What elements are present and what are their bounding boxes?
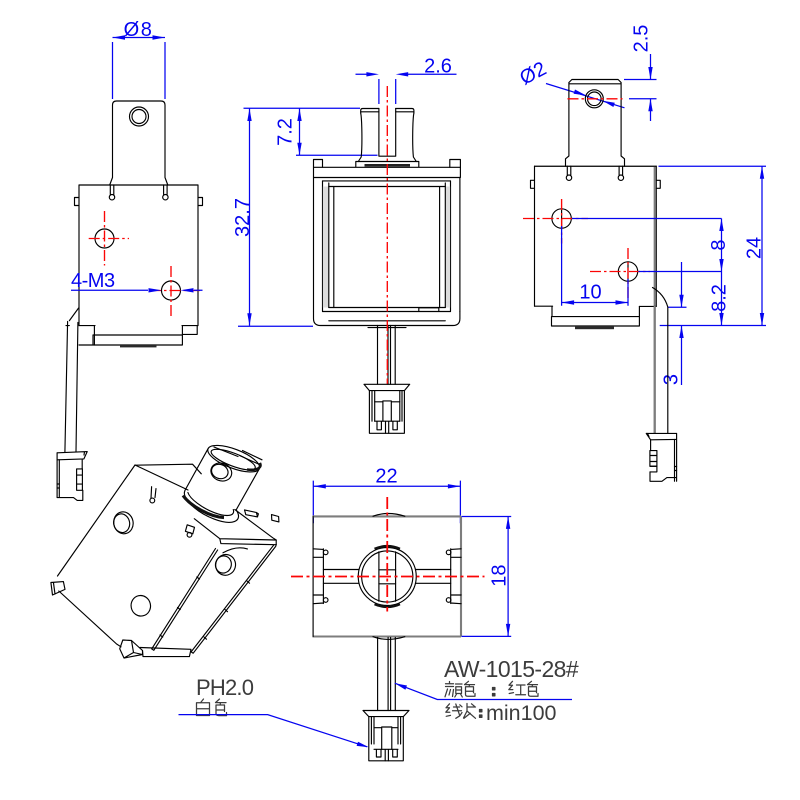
plunger slot xyxy=(379,109,396,157)
connector shell flare xyxy=(364,384,410,390)
centerline hole lower-right xyxy=(150,266,200,319)
glyph 白 xyxy=(197,699,210,716)
connector left edge ticks xyxy=(57,484,59,488)
connector body xyxy=(369,717,404,761)
bottom right notch xyxy=(182,326,198,335)
pin hole square xyxy=(379,570,396,584)
dim 18 extensions xyxy=(462,517,512,637)
note color row: 颜色 ： 红色 xyxy=(445,681,538,697)
plunger slot chords xyxy=(379,552,396,602)
connector bottom slots xyxy=(374,749,398,761)
iso bottom-left edge xyxy=(59,591,121,647)
iso cylinder cap xyxy=(205,440,263,477)
connector latch xyxy=(77,469,83,490)
centerline horizontal xyxy=(291,576,485,578)
right hook xyxy=(164,185,168,195)
iso flange front edge xyxy=(194,510,276,545)
dim 8.2 xyxy=(721,272,723,326)
bottom edge arc bump xyxy=(373,637,405,640)
base plate xyxy=(314,312,460,326)
arm plates xyxy=(323,570,450,584)
glyph 色 (3) xyxy=(216,699,227,716)
note wire length row: 线长： min100 xyxy=(446,704,482,719)
svg-text:AW-1015-28#: AW-1015-28# xyxy=(444,656,579,682)
connector bottom notch xyxy=(650,466,657,472)
dim 2.6 extension lines xyxy=(379,79,396,104)
leader to wire (red) xyxy=(395,683,572,699)
wire pair xyxy=(65,322,78,453)
svg-text:7.2: 7.2 xyxy=(275,118,297,146)
lead wires xyxy=(378,326,396,385)
body sides xyxy=(535,166,657,306)
coil box xyxy=(329,187,446,308)
top flange xyxy=(314,167,461,181)
glyph 色 (2) xyxy=(528,681,539,696)
plunger hole xyxy=(130,107,149,126)
note white row: 白色 xyxy=(197,699,227,716)
extension plate bottom xyxy=(660,325,766,327)
connector body xyxy=(650,433,677,481)
extension hole1 to dim 8 xyxy=(572,218,722,220)
connector inner walls xyxy=(371,717,400,744)
plunger ring xyxy=(358,548,416,606)
dim Ø8 line and arrows xyxy=(113,37,166,39)
top-right tab xyxy=(198,198,203,206)
connector body xyxy=(57,453,83,501)
centerline hole upper-left xyxy=(89,211,129,266)
svg-text:3: 3 xyxy=(661,374,683,385)
dim 22 line and arrows xyxy=(313,485,460,487)
glyph 红 xyxy=(509,681,526,694)
bottom right notch xyxy=(419,308,439,312)
wire bend xyxy=(653,288,668,434)
iso coil bobbin arc xyxy=(223,548,247,553)
centerline hole lower xyxy=(590,248,650,300)
iso top-back edge xyxy=(136,464,202,474)
right column xyxy=(451,178,460,312)
bottom left step xyxy=(79,326,95,345)
svg-text:2.5: 2.5 xyxy=(631,25,653,53)
svg-text:8: 8 xyxy=(708,239,730,250)
glyph 线 xyxy=(446,704,462,719)
body square xyxy=(313,516,462,636)
dim 2.5 extensions xyxy=(624,80,657,99)
iso front-top edge xyxy=(135,465,188,490)
connector shell flare xyxy=(646,433,676,439)
glyph 色 xyxy=(465,681,476,696)
body outline xyxy=(79,185,198,326)
plate bottom strip xyxy=(575,326,614,329)
dim 24 xyxy=(761,166,763,325)
svg-text:PH2.0: PH2.0 xyxy=(196,675,254,700)
svg-text:22: 22 xyxy=(375,466,397,488)
right hook xyxy=(618,175,623,180)
dim 22 extensions xyxy=(313,481,460,524)
centerline vertical xyxy=(386,497,388,612)
iso hook tab upper-left xyxy=(151,487,156,499)
iso far corner tab xyxy=(272,515,279,522)
washer under plunger xyxy=(356,162,419,167)
svg-text:32.7: 32.7 xyxy=(232,198,254,237)
dim 2.6 line and arrows xyxy=(356,73,457,75)
iso bracket leg outline xyxy=(152,545,277,654)
dim 18 xyxy=(507,516,509,636)
bottom right ledge xyxy=(639,305,656,307)
left hook xyxy=(110,185,114,195)
hole M3 lower-right xyxy=(162,281,181,300)
leader 4-M3 xyxy=(71,289,203,291)
plunger outline xyxy=(361,109,414,114)
svg-text:10: 10 xyxy=(579,282,601,304)
dim 2.5 xyxy=(650,54,652,121)
svg-text:24: 24 xyxy=(744,237,766,259)
iso cap slot lines xyxy=(214,447,262,465)
wire exit bend xyxy=(66,308,79,326)
svg-text:min100: min100 xyxy=(486,701,557,725)
connector inner walls xyxy=(372,391,402,422)
right ear xyxy=(451,549,461,604)
dim top extension xyxy=(244,107,361,109)
leader PH2.0 to connector xyxy=(179,715,368,747)
base bottom lip xyxy=(368,327,406,329)
connector center tab xyxy=(374,727,398,749)
dim 32.7 xyxy=(249,109,251,326)
connector body xyxy=(369,391,404,434)
iso left foot tab xyxy=(51,582,65,595)
glyph ：(2) xyxy=(480,710,482,718)
glyph ： xyxy=(493,688,495,696)
plunger body xyxy=(110,101,168,185)
centerline pin hole xyxy=(568,98,623,100)
bottom plate xyxy=(552,306,640,326)
flange corner tab left xyxy=(314,160,323,168)
side tab right xyxy=(656,180,660,188)
iso hook tab right xyxy=(185,525,194,534)
flange corner tab right xyxy=(450,160,461,168)
dim 3 xyxy=(681,262,683,385)
connector shell flare xyxy=(57,452,87,460)
svg-text:4-M3: 4-M3 xyxy=(71,270,115,292)
iso leg edge ticks xyxy=(160,577,250,639)
dim 8 xyxy=(721,219,723,272)
extension hole2 to dim 8 xyxy=(639,271,722,273)
hole lower xyxy=(618,262,637,281)
iso front face hole upper xyxy=(112,510,136,536)
leader Ø2 xyxy=(546,84,625,108)
iso bottom bar xyxy=(140,648,191,657)
iso cylinder sides xyxy=(185,449,260,510)
svg-text:8.2: 8.2 xyxy=(709,284,731,312)
glyph 颜 xyxy=(445,682,462,698)
plunger xyxy=(566,80,625,167)
iso cylinder side hole xyxy=(208,460,234,484)
dim 3 extension xyxy=(668,306,687,308)
plate bottom strip xyxy=(120,345,157,347)
glyph 长 xyxy=(464,704,476,719)
bore arcs xyxy=(375,546,401,549)
connector latch xyxy=(650,451,657,467)
svg-text:18: 18 xyxy=(489,564,511,586)
iso pin xyxy=(245,510,259,517)
bottom left step xyxy=(535,306,553,316)
dim 10 xyxy=(562,302,628,304)
connector center tab xyxy=(375,401,400,421)
iso body left-top edge xyxy=(58,465,136,576)
top-left tab xyxy=(75,198,80,206)
top edge arc bump xyxy=(373,514,405,517)
centerline hole upper xyxy=(523,199,588,244)
mounting plate xyxy=(79,335,182,345)
iso bottom foot wedge xyxy=(120,640,143,658)
hole upper xyxy=(552,209,571,228)
wire leads to connector xyxy=(654,306,656,433)
iso front face hole lower xyxy=(129,594,152,618)
bottom lines xyxy=(323,308,451,312)
dim 32.7 bottom extension xyxy=(238,325,313,327)
left column xyxy=(314,178,323,312)
iso leg hole xyxy=(213,552,238,577)
dim 7.2 bottom extension xyxy=(296,154,378,156)
body top xyxy=(535,165,657,167)
iso cylinder base washer xyxy=(184,491,238,523)
dim 10 extensions xyxy=(562,226,628,306)
centerline vertical xyxy=(386,86,388,384)
side tab left xyxy=(531,180,535,188)
hole M3 upper-left xyxy=(95,229,114,248)
connector bottom slots xyxy=(375,421,400,433)
left ear xyxy=(313,549,323,604)
left hook xyxy=(567,166,622,175)
dim 7.2 xyxy=(299,109,301,156)
lead wires xyxy=(378,638,396,711)
connector shell flare xyxy=(363,711,409,717)
connector right edge ticks xyxy=(675,467,677,471)
dim Ø8 extension lines xyxy=(113,42,166,99)
extension body top to dim 24 xyxy=(659,165,767,167)
plunger pin hole xyxy=(585,90,603,108)
